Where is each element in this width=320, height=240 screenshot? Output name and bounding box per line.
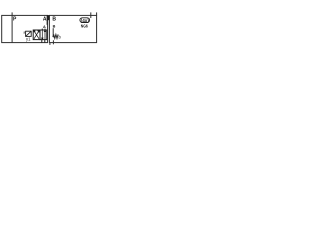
arrowhead of port B line bbox=[52, 36, 54, 38]
left subplate bbox=[2, 15, 48, 42]
svg-text:B: B bbox=[52, 16, 56, 22]
svg-text:NG6: NG6 bbox=[81, 24, 88, 30]
port T tick bbox=[90, 12, 92, 18]
svg-text:A: A bbox=[43, 25, 46, 29]
bottom tick under right box edge bbox=[49, 43, 51, 45]
port A channel stub bbox=[46, 15, 48, 24]
svg-text:A: A bbox=[43, 16, 47, 22]
svg-text:b: b bbox=[59, 34, 62, 39]
right subplate bbox=[49, 15, 96, 42]
svg-text:P: P bbox=[13, 17, 17, 23]
port B channel line with arrow bbox=[52, 28, 54, 37]
spring bbox=[54, 34, 58, 38]
valve square parallel bbox=[40, 30, 47, 40]
svg-text:y1: y1 bbox=[26, 37, 31, 42]
svg-text:a: a bbox=[23, 31, 25, 35]
svg-text:(4x): (4x) bbox=[81, 18, 90, 23]
corner tick right bbox=[96, 12, 98, 15]
dark split bar between subplates bbox=[47, 15, 49, 20]
svg-text:B: B bbox=[53, 25, 56, 29]
solenoid Y1 box bbox=[26, 31, 32, 36]
parallel arrows bbox=[42, 30, 46, 40]
valve body squares bbox=[33, 30, 47, 40]
port P line bbox=[11, 12, 13, 42]
bottom tick T drain bbox=[52, 40, 54, 44]
valve port stubs bottom P T bbox=[41, 40, 43, 43]
stadium 4x bbox=[80, 18, 90, 23]
crossed arrows bbox=[34, 30, 40, 38]
valve port stubs top A B bbox=[42, 29, 45, 43]
valve square crossed bbox=[33, 30, 40, 40]
